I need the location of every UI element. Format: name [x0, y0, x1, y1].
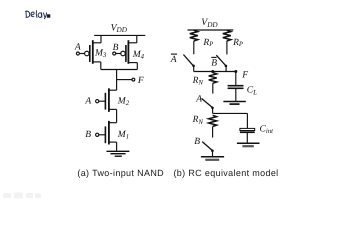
value label RN (lower) — [192, 115, 204, 126]
VDD label (b) — [201, 17, 218, 29]
node F junction — [234, 70, 237, 73]
wire B to M1 gate — [99, 134, 106, 136]
transistor M3 (PMOS) — [85, 35, 107, 69]
label M1 — [117, 130, 129, 141]
net label B-bar — [211, 58, 217, 68]
capacitor CL — [228, 86, 244, 89]
svg-text:F: F — [137, 76, 144, 86]
node A input terminal (a pull-up) — [74, 43, 81, 53]
junction RN top — [211, 70, 214, 73]
wire A to M3 gate — [79, 53, 84, 55]
wire A to M2 gate — [99, 100, 106, 102]
ground (below switch B) — [201, 156, 224, 158]
switch A (blade + contact) — [202, 98, 213, 107]
VDD label (a) — [111, 22, 128, 34]
value label RP (left) — [202, 38, 213, 48]
value label RN (upper) — [192, 76, 204, 87]
switch A-bar (blade + contact) — [183, 55, 193, 66]
value label CL — [247, 86, 257, 97]
switch B (blade + contact) — [202, 142, 212, 151]
label M3 — [94, 49, 107, 60]
switch B-bar (blade + contact) — [216, 55, 225, 65]
label M2 — [117, 96, 130, 107]
wire switch Abar to node — [193, 66, 195, 72]
resistor RN (upper) — [209, 73, 217, 84]
svg-text:A: A — [170, 55, 177, 65]
transistor M2 (NMOS) — [105, 88, 129, 122]
net label B — [194, 137, 200, 147]
svg-text:B: B — [194, 137, 200, 147]
wire B to M4 gate — [116, 53, 121, 55]
wire output stem — [116, 70, 118, 91]
svg-text:B: B — [211, 58, 217, 68]
resistor RP (left) — [190, 30, 198, 41]
net label F (a) — [137, 76, 144, 86]
handwritten annotation "Delay" — [26, 11, 47, 19]
ground (below Cint) — [237, 142, 260, 144]
net label A-bar — [170, 55, 177, 65]
node A input terminal (M2 gate) — [84, 97, 91, 107]
transistor M1 (NMOS) — [105, 121, 129, 151]
svg-text:(b) RC equivalent model: (b) RC equivalent model — [173, 168, 278, 178]
value label Cint — [260, 125, 275, 136]
net label F (b) — [241, 71, 248, 81]
resistor RP (right) — [223, 30, 231, 41]
svg-text:B: B — [85, 130, 91, 140]
label M4 — [132, 50, 145, 61]
svg-text:A: A — [84, 97, 91, 107]
capacitor Cint — [240, 128, 255, 130]
VDD rail (a) — [94, 34, 145, 36]
wire internal node to Cint — [246, 113, 248, 128]
svg-text:A: A — [74, 43, 81, 53]
svg-text:F: F — [241, 71, 248, 81]
annotation cursor square — [47, 14, 50, 17]
wire switch A to lower node — [212, 108, 214, 114]
node B input terminal (b pull-up) — [113, 43, 119, 53]
ground (a) — [107, 151, 130, 156]
faint toolbar watermark bottom-left — [3, 193, 41, 199]
wire drain join line — [101, 69, 138, 71]
svg-text:B: B — [113, 43, 119, 53]
node B input terminal (M1 gate) — [85, 130, 91, 140]
wire internal node — [213, 112, 248, 114]
svg-text:(a) Two-input NAND: (a) Two-input NAND — [77, 168, 164, 178]
node F output tap (a) — [117, 79, 132, 81]
ground (below CL) — [223, 101, 245, 103]
svg-text:A: A — [195, 94, 202, 104]
resistor RN (lower) — [209, 115, 217, 126]
net label A — [195, 94, 202, 104]
wire F to CL — [235, 72, 237, 86]
VDD rail (b) — [188, 29, 234, 31]
wire switch B to ground — [212, 151, 214, 157]
wire node F rail — [194, 71, 236, 73]
transistor M4 (PMOS) — [121, 35, 145, 69]
wire switch Bbar to node — [225, 66, 227, 72]
value label RP (right) — [232, 38, 243, 48]
